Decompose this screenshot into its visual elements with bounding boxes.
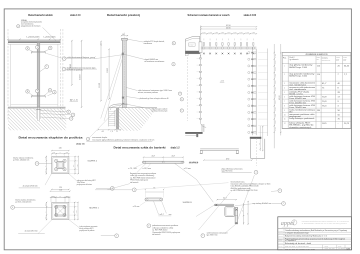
numbered circles row bbox=[203, 47, 205, 49]
plate 1 post tube bbox=[57, 162, 64, 169]
svg-text:SŁUPEK 2: SŁUPEK 2 bbox=[88, 161, 98, 163]
plate 2 left dims bbox=[46, 202, 48, 220]
clamp bar plan bbox=[142, 161, 184, 163]
side view: right dims bbox=[243, 203, 245, 225]
plate 1 right dims bbox=[69, 156, 79, 158]
level text in plan bbox=[220, 81, 225, 83]
long leader lines to clamp dot bbox=[101, 53, 122, 119]
svg-text:Schemat rozstawu barierek w os: Schemat rozstawu barierek w osiach bbox=[188, 13, 230, 17]
svg-text:Detal barierki przekrój: Detal barierki przekrój bbox=[107, 13, 140, 17]
top dimension over rail bbox=[8, 38, 60, 40]
plate 1 left dims bbox=[45, 156, 47, 174]
clamp bar top dim bbox=[144, 156, 184, 158]
posts note bbox=[62, 67, 66, 71]
plate 1 anchor holes bbox=[55, 159, 58, 162]
top handrail bbox=[8, 41, 60, 43]
callout: cap plug bbox=[128, 39, 144, 42]
post axis stubs bbox=[203, 39, 205, 41]
one-side fixing note bbox=[147, 224, 151, 228]
right dim chain bbox=[273, 44, 275, 148]
wall corner step (plan, lower) bbox=[201, 124, 203, 132]
height dimension lines bbox=[62, 29, 64, 120]
vertical dimension lines bbox=[100, 42, 102, 101]
schematic plan: wall at left bbox=[185, 36, 200, 53]
element list table bbox=[282, 53, 351, 129]
top dimension chain total bbox=[201, 26, 257, 28]
axis lines bbox=[7, 29, 9, 120]
svg-text:Detal barierki widok: Detal barierki widok bbox=[28, 13, 53, 17]
svg-text:Detal mocowania słupków do pod: Detal mocowania słupków do podłoża bbox=[19, 135, 84, 139]
lower clamp bracket with callouts bbox=[31, 95, 45, 97]
callout: post profile bbox=[124, 54, 144, 59]
plate 1 right-bottom note bbox=[69, 174, 77, 181]
svg-text:SŁUPEK 1: SŁUPEK 1 bbox=[89, 207, 99, 209]
flat bar mark on post bbox=[122, 97, 124, 99]
long leaders from left notes bbox=[196, 205, 214, 216]
svg-text:appel: appel bbox=[281, 220, 295, 227]
plate 1 bbox=[52, 157, 69, 174]
right vertical run of plan bbox=[252, 47, 254, 135]
floor hatch bbox=[0, 43, 113, 194]
small bar detail bbox=[145, 191, 163, 193]
title block right cells bbox=[322, 245, 324, 250]
svg-text:skala 1:10: skala 1:10 bbox=[70, 14, 81, 17]
glass top edge bbox=[8, 43, 60, 45]
channel side dims bbox=[259, 126, 261, 151]
svg-text:Detal mocowania szkła do barie: Detal mocowania szkła do barierki bbox=[114, 146, 166, 150]
plate 2 bbox=[52, 202, 69, 219]
wall top line bbox=[109, 107, 157, 109]
glass panel edges bbox=[10, 44, 12, 106]
glass clamp dot on post bbox=[122, 53, 124, 56]
base note under middle detail bbox=[86, 137, 89, 140]
masonry section ladder bbox=[108, 110, 110, 126]
segment dimension chain bbox=[201, 33, 257, 35]
curved bracket bbox=[109, 104, 122, 110]
callout: flat bar bbox=[126, 97, 139, 99]
left vertical run of plan bbox=[187, 57, 189, 121]
plan bottom wall bar bbox=[250, 137, 261, 139]
title block bbox=[278, 217, 352, 250]
upper clamp bracket with callouts bbox=[31, 51, 45, 53]
callout: anchors bbox=[127, 104, 152, 109]
side view: post section bbox=[225, 207, 235, 217]
post section lines bbox=[122, 40, 126, 108]
leader to side view bbox=[175, 163, 214, 202]
level mark bbox=[70, 100, 72, 102]
anchor callouts 3 4 5 bbox=[40, 111, 66, 112]
cap dimension bbox=[121, 35, 128, 37]
svg-text:skala 1:2: skala 1:2 bbox=[171, 148, 181, 150]
plate 2 anchor holes bbox=[55, 205, 58, 208]
base plate bbox=[121, 103, 128, 105]
wall hatch bbox=[64, 47, 208, 191]
glass note bbox=[63, 57, 67, 61]
floor line bbox=[8, 106, 66, 108]
plate 1 dimensions above bbox=[52, 150, 69, 152]
side view: glass edge bbox=[235, 208, 238, 224]
plan post squares row bbox=[203, 43, 204, 45]
anchor X marks row bbox=[203, 53, 205, 55]
info rows bbox=[278, 231, 352, 233]
bench profile bbox=[200, 148, 239, 150]
plate 2 post tube with diagonals bbox=[55, 206, 65, 216]
glass bottom edge bbox=[11, 104, 58, 106]
post cap bbox=[122, 38, 128, 40]
post anchor into floor bbox=[36, 109, 42, 121]
plate 2 right dims bbox=[69, 201, 78, 203]
plate 2 dims above bbox=[51, 190, 70, 192]
svg-text:skala 1:100: skala 1:100 bbox=[244, 14, 257, 17]
plate 2 dims above bbox=[52, 188, 69, 190]
callout: glass bbox=[126, 88, 137, 91]
embedded anchor strip bbox=[116, 108, 119, 129]
bench dim 470 bbox=[204, 159, 252, 161]
corner wall plate bbox=[199, 42, 202, 53]
side view: clamp bar bbox=[214, 204, 234, 206]
svg-text:skala 1:5: skala 1:5 bbox=[76, 144, 85, 146]
railing double line bbox=[201, 46, 257, 48]
plan axis bbox=[200, 26, 202, 57]
bottom small dimension bbox=[98, 129, 120, 131]
callout circle 1 on post bbox=[45, 65, 49, 69]
post bbox=[37, 43, 40, 108]
